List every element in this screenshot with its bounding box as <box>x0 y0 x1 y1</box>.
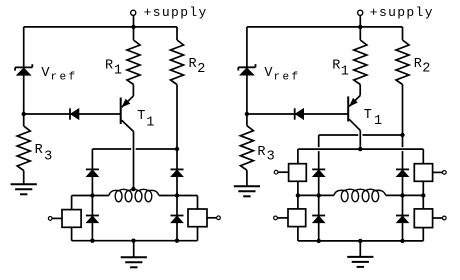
zener diode Vref (right) <box>238 66 255 68</box>
node upper-left terminal circle (right) <box>274 170 278 174</box>
wire bottom rail (left) <box>72 240 198 242</box>
svg-text:R: R <box>189 57 197 72</box>
wire outer-right mid segment (right) <box>422 181 424 209</box>
resistor R1 (right) <box>354 40 367 85</box>
svg-text:3: 3 <box>44 149 52 164</box>
wire outer-right top stub (right) <box>422 149 424 164</box>
diode D5 lower-right bridge (left) <box>171 215 184 217</box>
junction supply/top-rail (left) <box>131 25 135 29</box>
wire left column upper (right) <box>246 27 248 67</box>
wire bridge top rail right segment (left) <box>136 148 177 150</box>
junction R2/top rail (left) <box>175 147 179 151</box>
wire left diode column (left) <box>91 149 93 241</box>
svg-text:T: T <box>364 108 372 123</box>
junction bottom center (right) <box>358 239 362 243</box>
wire top rail (right) <box>247 26 403 28</box>
diode D2 upper-left bridge (right) <box>312 168 325 170</box>
svg-text:2: 2 <box>197 62 205 77</box>
svg-text:1: 1 <box>146 115 154 130</box>
wire outer-left top stub (right) <box>297 149 299 164</box>
wire left box bottom stub (left) <box>71 227 73 240</box>
wire upper-right terminal (right) <box>433 171 443 173</box>
wire inner-left column (right) <box>318 151 320 241</box>
node lower-right terminal circle (right) <box>442 216 446 220</box>
junction right column/mid (left) <box>175 193 179 197</box>
wire R2 stub to upper rail (right) <box>402 85 404 136</box>
resistor R1 (left) <box>127 40 140 85</box>
wire upper-left terminal (right) <box>278 171 288 173</box>
wire bottom rail (right) <box>298 240 423 242</box>
diode D4 upper-right bridge (left) <box>171 168 184 170</box>
svg-text:R: R <box>105 58 113 73</box>
wire ground stub (left) <box>133 241 135 258</box>
wire Vref node to R3 (right) <box>246 114 248 126</box>
wire mid rail right (left) <box>159 195 198 197</box>
wire R3 to ground (left) <box>23 171 25 185</box>
transistor T1 emitter lead (left) <box>122 96 134 107</box>
svg-text:ref: ref <box>51 72 78 84</box>
wire outer-right bottom stub (right) <box>422 228 424 241</box>
transistor T1 emitter arrow (right) <box>350 99 357 106</box>
wire R1 top stub (right) <box>359 27 361 40</box>
transistor T1 collector lead (left) <box>122 120 134 131</box>
wire ground stub (right) <box>359 241 361 257</box>
junction supply/top-rail (right) <box>358 25 362 29</box>
wire inner-left column upper (right) <box>318 135 320 147</box>
wire base rail (left) <box>24 113 121 115</box>
wire base rail (right) <box>247 113 348 115</box>
wire supply stub (right) <box>359 16 361 27</box>
resistor R3 (left) <box>17 126 30 171</box>
svg-text:2: 2 <box>422 62 430 77</box>
svg-text:R: R <box>332 59 340 74</box>
wire right diode column (left) <box>176 149 178 241</box>
wire R3 to ground (right) <box>246 170 248 186</box>
wire lower-right terminal (right) <box>433 217 443 219</box>
wire collector down (right) <box>359 131 361 150</box>
svg-text:T: T <box>137 109 145 124</box>
wire zener to Vref node (left) <box>23 75 25 114</box>
junction inner-right/mid (right) <box>400 193 404 197</box>
transistor T1 base bar (right) <box>347 96 349 121</box>
junction bottom-left (left) <box>90 239 94 243</box>
wire R1 to emitter (right) <box>359 85 361 96</box>
resistor R2 (right) <box>396 40 409 85</box>
wire bridge top rail left segment (left) <box>92 148 131 150</box>
wire Vref node to R3 (left) <box>23 114 25 126</box>
node upper-right terminal circle (right) <box>442 171 446 175</box>
wire lower rail (right) <box>298 148 423 150</box>
junction bottom-center (left) <box>131 239 135 243</box>
node +supply terminal (left) <box>131 10 136 15</box>
wire mid rail left (left) <box>72 195 109 197</box>
wire inner-right column (right) <box>402 151 404 241</box>
wire R1 top stub (left) <box>133 27 135 40</box>
zener diode Vref (left) <box>15 66 32 68</box>
wire zener to Vref node (right) <box>246 75 248 114</box>
box upper-left (right) <box>289 164 307 182</box>
transistor T1 emitter lead (right) <box>349 96 360 107</box>
node left terminal circle (left) <box>48 217 52 221</box>
transistor T1 emitter arrow (left) <box>122 99 129 106</box>
wire right terminal (left) <box>207 217 216 219</box>
junction Vref node (left) <box>22 112 26 116</box>
inductor L1 (left) <box>109 190 119 195</box>
resistor R2 (left) <box>171 40 184 85</box>
wire right box top stub (left) <box>197 196 199 210</box>
box lower-right (right) <box>414 209 432 228</box>
wire outer-left bottom stub (right) <box>297 227 299 241</box>
diode D1 base (left) <box>69 108 71 119</box>
wire lower-left terminal (right) <box>278 217 288 219</box>
box output left (left) <box>62 210 81 228</box>
wire top rail (left) <box>24 26 177 28</box>
box output right (left) <box>188 209 207 227</box>
wire R2 stub to bridge (left) <box>176 85 178 150</box>
svg-text:+supply: +supply <box>144 5 208 20</box>
wire R2 top stub (right) <box>402 27 404 40</box>
junction bottom inner-left (right) <box>317 239 321 243</box>
svg-text:1: 1 <box>114 63 122 78</box>
box upper-right (right) <box>414 164 432 182</box>
node lower-left terminal circle (right) <box>274 216 278 220</box>
transistor T1 collector lead (right) <box>349 119 360 130</box>
junction left column/mid (left) <box>90 193 94 197</box>
svg-text:V: V <box>264 66 273 81</box>
diode D3 lower-left bridge (left) <box>86 215 99 217</box>
resistor R3 (right) <box>240 126 253 171</box>
ground R3 (right) <box>234 185 260 187</box>
inductor L1 (right) <box>334 190 345 195</box>
wire collector down (left) <box>133 132 135 189</box>
wire left column upper (left) <box>23 27 25 67</box>
svg-text:+supply: +supply <box>370 5 434 20</box>
junction bottom-right (left) <box>175 239 179 243</box>
node right terminal circle (left) <box>217 216 221 220</box>
junction inner-left/mid (right) <box>317 193 321 197</box>
transistor T1 base bar (left) <box>120 98 122 125</box>
wire outer-left mid segment (right) <box>297 181 299 209</box>
svg-text:V: V <box>41 66 50 81</box>
ground main (right) <box>347 256 373 258</box>
ground R3 (left) <box>11 183 37 185</box>
junction collector/lower rail (right) <box>358 147 362 151</box>
junction outer-left/mid (right) <box>296 193 300 197</box>
junction bottom inner-right (right) <box>400 239 404 243</box>
ground main (left) <box>121 256 147 258</box>
svg-text:R: R <box>414 57 422 72</box>
diode D2 upper-left bridge (left) <box>86 168 99 170</box>
wire left terminal (left) <box>52 217 62 219</box>
box lower-left (right) <box>288 209 306 227</box>
junction Vref node (right) <box>245 112 249 116</box>
wire R2 top stub (left) <box>176 27 178 40</box>
wire inner-right column upper (right) <box>402 135 404 147</box>
junction inductor center tap (left) <box>131 187 135 191</box>
svg-text:ref: ref <box>274 72 301 84</box>
wire R1 to emitter (left) <box>132 85 134 97</box>
wire upper rail left segment (right) <box>319 134 359 136</box>
diode D3 lower-left bridge (right) <box>312 215 325 217</box>
wire right box bottom stub (left) <box>197 227 199 241</box>
wire supply stub (left) <box>133 16 135 27</box>
node +supply terminal (right) <box>358 10 363 15</box>
svg-text:R: R <box>257 145 265 160</box>
svg-text:R: R <box>35 143 43 158</box>
diode D5 lower-right bridge (right) <box>396 215 409 217</box>
junction outer-right/mid (right) <box>421 193 425 197</box>
svg-text:1: 1 <box>374 114 382 129</box>
wire mid rail (right) <box>298 194 334 196</box>
svg-text:1: 1 <box>341 64 349 79</box>
wire mid rail east (right) <box>386 194 424 196</box>
diode D4 upper-right bridge (right) <box>396 168 409 170</box>
wire left box top stub (left) <box>71 196 73 210</box>
wire upper rail right segment (right) <box>363 134 403 136</box>
svg-text:3: 3 <box>267 150 275 165</box>
junction R2/upper rail (right) <box>400 133 404 137</box>
diode D1 base (right) <box>294 108 296 119</box>
